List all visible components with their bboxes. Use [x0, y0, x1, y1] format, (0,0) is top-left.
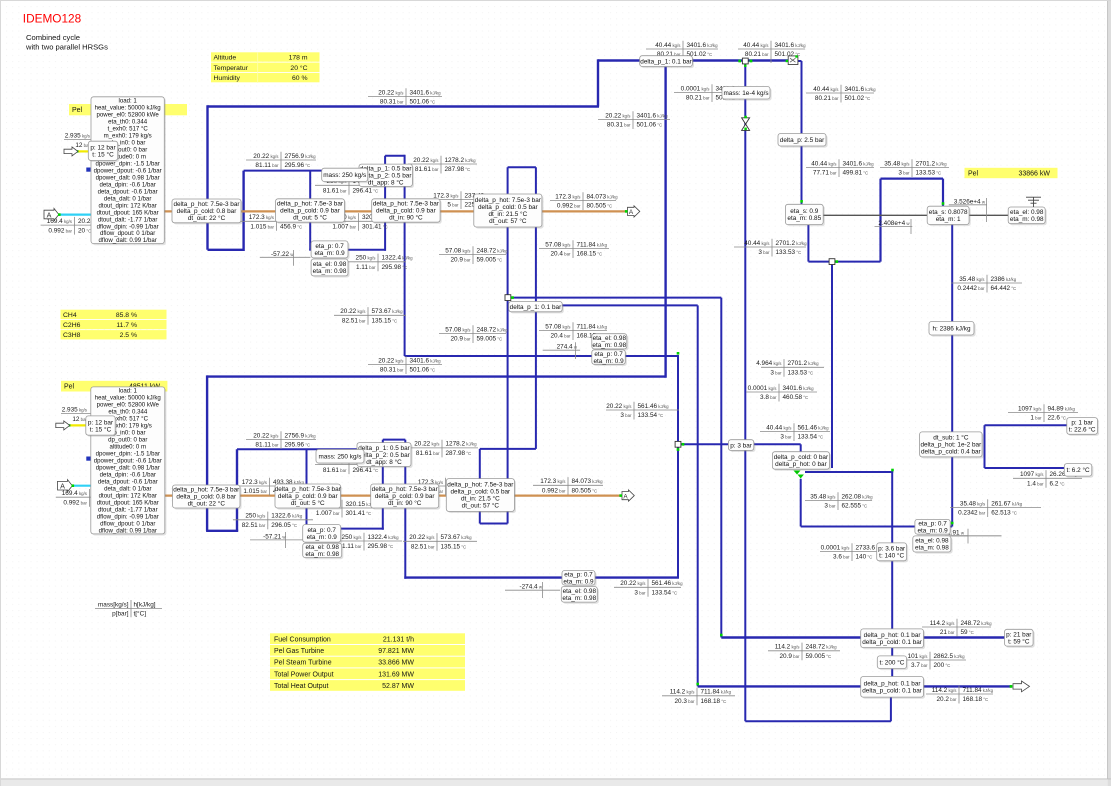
wire HX3 outlet y472: [805, 471, 893, 473]
misc green ticks: [800, 200, 803, 203]
fuel values GT1: [64, 133, 95, 149]
svg-text:eta_m: 0.9: eta_m: 0.9: [593, 358, 624, 365]
svg-text:dt_out: 57 °C: dt_out: 57 °C: [462, 502, 500, 510]
fuel arrow GT2: [56, 421, 70, 430]
svg-text:248.72 kJ/kg: 248.72 kJ/kg: [806, 644, 838, 651]
svg-text:2756.9 kJ/kg: 2756.9 kJ/kg: [285, 432, 317, 439]
svg-text:eta_m: 1: eta_m: 1: [936, 216, 961, 223]
svg-text:81.11 bar: 81.11 bar: [255, 162, 279, 169]
svg-text:2.408e+4 w: 2.408e+4 w: [878, 220, 910, 227]
svg-text:eta_m: 0.98: eta_m: 0.98: [915, 545, 949, 552]
svg-text:40.44 kg/s: 40.44 kg/s: [811, 160, 837, 167]
wire HP steam line HRSG2: [207, 375, 665, 377]
air inlet values GT1: [41, 217, 106, 235]
svg-text:261.67 kJ/kg: 261.67 kJ/kg: [991, 500, 1023, 507]
wire HRSG1 evaporator leg x310: [309, 171, 311, 250]
stream values condensate b: [614, 579, 683, 597]
svg-text:eta_p: 0.7: eta_p: 0.7: [918, 520, 947, 527]
stream values p3.6bar: [820, 543, 887, 561]
svg-text:59 °C: 59 °C: [961, 629, 974, 636]
wire LP leg x479: [479, 449, 481, 524]
air inlet line GT2 (cyan): [72, 485, 110, 487]
stream values HRSG1 circulation: [315, 177, 392, 195]
svg-text:20 °C: 20 °C: [78, 227, 91, 234]
flue gas duct GT2 (tan): [150, 495, 621, 497]
stream values condensate a: [606, 402, 679, 420]
svg-text:460.58 °C: 460.58 °C: [783, 394, 809, 401]
junction node p3bar: [675, 441, 681, 447]
svg-text:eta_el: 0.98: eta_el: 0.98: [313, 261, 347, 268]
wire HRSG2 riser x237: [236, 449, 238, 531]
svg-text:dp_out0: 0 bar: dp_out0: 0 bar: [108, 437, 147, 444]
svg-text:248.72 kJ/kg: 248.72 kJ/kg: [961, 620, 993, 627]
svg-text:delta_p: 2.5 bar: delta_p: 2.5 bar: [780, 137, 825, 144]
fuel arrow GT1: [64, 147, 78, 156]
cooling water outlet values: [1013, 470, 1082, 488]
svg-text:20.3 bar: 20.3 bar: [674, 698, 695, 705]
evaporator HX box HRSG2 dt5: [275, 484, 342, 510]
svg-text:3 bar: 3 bar: [634, 590, 646, 597]
svg-text:40.44 kg/s: 40.44 kg/s: [743, 42, 769, 49]
stream values header left: [646, 41, 718, 63]
svg-text:deta_dpin: -0.6 1/bar: deta_dpin: -0.6 1/bar: [100, 181, 156, 188]
gas turbine GT2 parameter box: [91, 387, 167, 536]
stream values LP drum 1: [539, 240, 609, 258]
svg-text:82.51 bar: 82.51 bar: [242, 522, 266, 529]
svg-text:dt_out: 22 °C: dt_out: 22 °C: [188, 214, 226, 222]
wire HRSG1 bottom U1: [208, 249, 244, 251]
svg-text:84.073 kJ/kg: 84.073 kJ/kg: [587, 193, 619, 200]
stream values HRSG2 steam: [368, 356, 442, 374]
control valve: [742, 118, 750, 131]
svg-text:77.71 bar: 77.71 bar: [813, 170, 837, 177]
ambient conditions table: [211, 52, 320, 61]
stream values LP feed 1: [439, 246, 508, 264]
svg-text:delta_p_hot: 0.1 bar: delta_p_hot: 0.1 bar: [864, 632, 922, 639]
svg-text:64.442 °C: 64.442 °C: [991, 285, 1017, 292]
svg-text:altitude0: 0 m: altitude0: 0 m: [110, 444, 147, 451]
svg-text:80.21 bar: 80.21 bar: [686, 95, 710, 102]
svg-text:133.54 °C: 133.54 °C: [798, 434, 824, 441]
svg-text:5 bar: 5 bar: [447, 202, 459, 209]
svg-text:97.821 MW: 97.821 MW: [378, 648, 414, 655]
DH supply values right: [926, 686, 994, 704]
svg-text:1278.2 kJ/kg: 1278.2 kJ/kg: [445, 157, 477, 164]
svg-text:delta_p_hot: 1e-2 bar: delta_p_hot: 1e-2 bar: [920, 442, 982, 449]
circulation pump HRSG2: [303, 525, 343, 544]
svg-text:1.007 bar: 1.007 bar: [316, 510, 340, 517]
svg-text:eta_s: 0.9: eta_s: 0.9: [790, 208, 819, 215]
svg-text:eta_th0: 0.344: eta_th0: 0.344: [108, 409, 148, 416]
wire HRSG2 top U2: [383, 439, 406, 441]
svg-text:deta_dalt: 0 1/bar: deta_dalt: 0 1/bar: [104, 485, 151, 492]
stream values HRSG2 circulation: [315, 456, 392, 474]
svg-text:delta_p_hot: 7.5e-3 bar: delta_p_hot: 7.5e-3 bar: [447, 482, 514, 489]
svg-text:3 bar: 3 bar: [898, 170, 910, 177]
svg-text:t: 200 °C: t: 200 °C: [879, 658, 904, 666]
svg-text:0.992 bar: 0.992 bar: [542, 488, 566, 495]
svg-text:35.48 kg/s: 35.48 kg/s: [810, 493, 836, 500]
svg-text:dtout_dpin: 172 K/bar: dtout_dpin: 172 K/bar: [99, 492, 157, 499]
shaft LP turbine-generator: [969, 214, 1008, 216]
svg-text:33.866 MW: 33.866 MW: [378, 660, 414, 667]
svg-text:Total Power Output: Total Power Output: [274, 671, 334, 678]
svg-text:200 °C: 200 °C: [934, 662, 951, 669]
circulation pump motor HRSG1: [311, 259, 350, 278]
svg-text:169.4 kg/s: 169.4 kg/s: [62, 490, 88, 497]
fuel condition box GT1: [88, 141, 119, 162]
svg-text:eta_p: 0.7: eta_p: 0.7: [594, 351, 623, 358]
stream values circulation pump in 2: [233, 512, 313, 530]
exhaust enthalpy box: [929, 322, 976, 337]
svg-text:250 kg/s: 250 kg/s: [342, 534, 363, 541]
cooling water inlet values: [1008, 404, 1078, 422]
wire HRSG2 economizer leg x382: [382, 440, 384, 530]
svg-text:C3H8: C3H8: [63, 332, 81, 339]
stream values HRSG2 drum steam: [246, 431, 316, 449]
svg-text:2701.2 kJ/kg: 2701.2 kJ/kg: [788, 360, 820, 367]
svg-text:11.7 %: 11.7 %: [116, 322, 137, 329]
svg-text:1.4 bar: 1.4 bar: [1027, 481, 1044, 488]
svg-text:295.98 °C: 295.98 °C: [382, 264, 408, 271]
svg-text:eta_p: 0.7: eta_p: 0.7: [564, 571, 593, 578]
LP HX box HRSG2: [446, 479, 516, 513]
svg-text:295.96 °C: 295.96 °C: [285, 162, 311, 169]
svg-text:0.992 bar: 0.992 bar: [63, 499, 87, 506]
stream values bypass down: [746, 384, 817, 402]
steam values t200: [897, 652, 966, 670]
svg-text:40.44 kg/s: 40.44 kg/s: [813, 86, 839, 93]
svg-text:delta_p_hot: 0.1 bar: delta_p_hot: 0.1 bar: [864, 681, 922, 688]
svg-text:dflow_dpin: -0.99 1/bar: dflow_dpin: -0.99 1/bar: [97, 513, 159, 520]
svg-text:dt_in: 21.5 °C: dt_in: 21.5 °C: [461, 495, 500, 503]
svg-text:heat_value: 50000 kJ/kg: heat_value: 50000 kJ/kg: [95, 395, 161, 402]
svg-text:85.8 %: 85.8 %: [116, 312, 137, 319]
wire HRSG2 evaporator leg x306: [306, 449, 308, 530]
svg-text:eta_m: 0.98: eta_m: 0.98: [305, 551, 339, 558]
svg-text:12 bar: 12 bar: [72, 416, 87, 423]
svg-text:dt_out: 5 °C: dt_out: 5 °C: [293, 214, 327, 222]
wire crossover riser x880: [879, 179, 881, 262]
svg-text:eta_m: 0.98: eta_m: 0.98: [313, 268, 347, 275]
wire HP steam line HRSG1: [208, 105, 600, 107]
svg-text:172.3 kg/s: 172.3 kg/s: [249, 214, 275, 221]
svg-text:81.61 bar: 81.61 bar: [323, 467, 347, 474]
svg-text:3 bar: 3 bar: [780, 434, 792, 441]
svg-text:Pel Steam Turbine: Pel Steam Turbine: [274, 660, 332, 667]
LP pump 1: [592, 350, 627, 366]
flue gas values HRSG1 out: [550, 192, 618, 210]
svg-text:A: A: [629, 209, 634, 216]
svg-text:20.22 kg/s: 20.22 kg/s: [620, 580, 646, 587]
junction node top: [742, 58, 748, 64]
flue gas duct GT1 (tan): [155, 210, 627, 212]
svg-text:dpower_dalt: 0.98 1/bar: dpower_dalt: 0.98 1/bar: [96, 174, 160, 181]
svg-text:114.2 kg/s: 114.2 kg/s: [670, 689, 696, 696]
svg-text:295.96 °C: 295.96 °C: [285, 442, 311, 449]
svg-text:delta_p_hot: 7.5e-3 bar: delta_p_hot: 7.5e-3 bar: [275, 486, 342, 493]
svg-text:561.46 kJ/kg: 561.46 kJ/kg: [652, 580, 684, 587]
DH water values HX1 in: [768, 643, 840, 661]
svg-text:eta_s: 0.8078: eta_s: 0.8078: [929, 209, 968, 216]
flue gas values HRSG2 a: [234, 478, 305, 496]
svg-text:3401.6 kJ/kg: 3401.6 kJ/kg: [637, 112, 669, 119]
cooling water source box: [1067, 418, 1099, 436]
svg-text:287.98 °C: 287.98 °C: [445, 166, 471, 173]
svg-text:296.41 °C: 296.41 °C: [353, 188, 379, 195]
turbine valve box: [778, 134, 828, 148]
wire LP U bottom: [480, 523, 508, 525]
stream values LP drum 2: [539, 322, 608, 340]
svg-text:20.22 kg/s: 20.22 kg/s: [378, 357, 404, 364]
svg-text:21.131 t/h: 21.131 t/h: [383, 636, 414, 643]
svg-text:172.3 kg/s: 172.3 kg/s: [540, 478, 566, 485]
svg-text:dpower_dpout: -0.6 1/bar: dpower_dpout: -0.6 1/bar: [94, 167, 162, 174]
svg-text:delta_p_hot: 7.5e-3 bar: delta_p_hot: 7.5e-3 bar: [373, 201, 440, 208]
svg-text:20.9 bar: 20.9 bar: [450, 257, 471, 264]
svg-text:eta_m: 0.98: eta_m: 0.98: [592, 342, 626, 349]
svg-text:dtout_dpout: 165 K/bar: dtout_dpout: 165 K/bar: [97, 209, 159, 216]
svg-text:135.15 °C: 135.15 °C: [441, 544, 467, 551]
svg-text:delta_p_2: 0.5 bar: delta_p_2: 0.5 bar: [358, 452, 410, 459]
svg-text:t[°C]: t[°C]: [134, 610, 147, 618]
svg-text:21 bar: 21 bar: [940, 629, 955, 636]
stream values HRSG1 drum water: [408, 156, 477, 174]
svg-text:A: A: [60, 482, 65, 491]
svg-text:1.11 bar: 1.11 bar: [342, 543, 362, 550]
wire HRSG1 drum level line: [244, 170, 385, 172]
svg-text:20.22 kg/s: 20.22 kg/s: [605, 112, 631, 119]
svg-text:with two parallel HRSGs: with two parallel HRSGs: [25, 42, 108, 51]
stream values HRSG1 steam: [368, 88, 442, 106]
svg-text:t_exh0: 517 °C: t_exh0: 517 °C: [107, 125, 148, 132]
fuel line green tips: [76, 150, 78, 152]
svg-text:eta_el: 0.98: eta_el: 0.98: [305, 544, 339, 551]
fuel line GT1 (yellow): [78, 150, 93, 152]
svg-text:Pel Gas Turbine: Pel Gas Turbine: [274, 648, 324, 655]
svg-text:A: A: [623, 493, 628, 500]
svg-text:135.15 °C: 135.15 °C: [372, 318, 398, 325]
svg-text:dt_out: 22 °C: dt_out: 22 °C: [188, 500, 226, 508]
svg-text:dpower_dpout: -0.6 1/bar: dpower_dpout: -0.6 1/bar: [94, 458, 162, 465]
LP pump motor 2: [561, 587, 599, 604]
svg-text:Temperatur: Temperatur: [214, 65, 249, 72]
svg-text:dt_sub: 1 °C: dt_sub: 1 °C: [933, 434, 969, 442]
stream values bypass: [674, 84, 747, 102]
svg-text:3.6 bar: 3.6 bar: [833, 554, 850, 561]
svg-text:t: 140 °C: t: 140 °C: [879, 552, 904, 560]
svg-text:t: 15 °C: t: 15 °C: [92, 151, 114, 159]
svg-text:eta_m: 0.85: eta_m: 0.85: [787, 215, 821, 222]
LP pump 2: [562, 571, 597, 587]
svg-text:dtout_dalt: -1.77 1/bar: dtout_dalt: -1.77 1/bar: [98, 506, 158, 513]
circulation mass box HRSG1: [322, 168, 370, 183]
svg-text:172.3 kg/s: 172.3 kg/s: [242, 479, 268, 486]
svg-text:p: 3.6 bar: p: 3.6 bar: [878, 546, 906, 553]
svg-text:p: 12 bar: p: 12 bar: [90, 145, 116, 152]
fuel composition table: [61, 310, 167, 319]
svg-text:561.46 kJ/kg: 561.46 kJ/kg: [638, 403, 670, 410]
wire HRSG2 drum level line: [237, 448, 383, 450]
svg-text:501.06 °C: 501.06 °C: [637, 122, 663, 129]
wire LP admission y178: [881, 178, 944, 180]
svg-text:20.22 kg/s: 20.22 kg/s: [409, 534, 435, 541]
svg-text:3401.6 kJ/kg: 3401.6 kJ/kg: [845, 86, 877, 93]
svg-text:dt_in: 90 °C: dt_in: 90 °C: [389, 214, 423, 222]
wire DH return y721: [745, 720, 891, 722]
condenser box: [920, 432, 984, 459]
svg-text:eta_m: 0.9: eta_m: 0.9: [307, 534, 338, 541]
svg-text:Altitude: Altitude: [214, 55, 237, 62]
wire HRSG2 feedwater line: [306, 528, 384, 530]
svg-text:501.02 °C: 501.02 °C: [845, 95, 871, 102]
svg-text:1322.4 kJ/kg: 1322.4 kJ/kg: [368, 534, 400, 541]
svg-text:287.98 °C: 287.98 °C: [446, 450, 472, 457]
svg-text:33866 kW: 33866 kW: [1018, 171, 1050, 178]
svg-text:-274.4 w: -274.4 w: [519, 584, 542, 591]
wire LP steam supply y305: [540, 304, 698, 306]
svg-text:h[kJ/kg]: h[kJ/kg]: [134, 601, 156, 608]
wire drop to DH HX2 x697: [697, 305, 699, 686]
svg-text:94.89 kJ/kg: 94.89 kJ/kg: [1048, 405, 1076, 412]
svg-text:2701.2 kJ/kg: 2701.2 kJ/kg: [916, 160, 948, 167]
wire heater string x892: [891, 471, 893, 688]
svg-text:133.54 °C: 133.54 °C: [638, 412, 664, 419]
air inlet arrow GT1: [44, 208, 59, 220]
exhaust arrow HRSG2: [622, 490, 634, 501]
shaft power HP-LP: [875, 219, 913, 234]
svg-text:295.98 °C: 295.98 °C: [368, 543, 394, 550]
p3.6bar box: [877, 543, 909, 563]
svg-text:20.22 kg/s: 20.22 kg/s: [253, 432, 279, 439]
svg-text:133.53 °C: 133.53 °C: [776, 249, 802, 256]
svg-text:1278.2 kJ/kg: 1278.2 kJ/kg: [446, 441, 478, 448]
grid symbol: [1026, 197, 1041, 207]
svg-text:57.08 kg/s: 57.08 kg/s: [545, 241, 571, 248]
stream values HRSG1 drum steam: [246, 152, 316, 170]
svg-text:delta_p_cold: 0.5 bar: delta_p_cold: 0.5 bar: [478, 204, 539, 211]
svg-text:dflow_dalt: 0.99 1/bar: dflow_dalt: 0.99 1/bar: [99, 237, 157, 244]
svg-text:3401.6 kJ/kg: 3401.6 kJ/kg: [783, 385, 815, 392]
svg-text:81.61 bar: 81.61 bar: [416, 450, 440, 457]
svg-text:dpower_dpin: -1.5 1/bar: dpower_dpin: -1.5 1/bar: [96, 451, 160, 458]
pump power HRSG1: [260, 250, 311, 266]
svg-text:delta_p_1: 0.1 bar: delta_p_1: 0.1 bar: [640, 58, 692, 65]
svg-text:40.44 kg/s: 40.44 kg/s: [655, 42, 681, 49]
svg-text:711.84 kJ/kg: 711.84 kJ/kg: [577, 241, 608, 248]
svg-text:3 bar: 3 bar: [758, 249, 770, 256]
svg-text:delta_p_cold: 0.9 bar: delta_p_cold: 0.9 bar: [376, 208, 437, 215]
wire HP turbine exhaust x808: [807, 225, 809, 262]
svg-text:168.18 °C: 168.18 °C: [963, 696, 989, 703]
fuel line GT2 (yellow): [70, 424, 87, 426]
svg-text:heat_value: 50000 kJ/kg: heat_value: 50000 kJ/kg: [95, 104, 161, 111]
wire drop to DH HX1 x721: [720, 298, 722, 638]
stream values LP mix: [756, 359, 824, 377]
svg-text:delta_p_hot: 7.5e-3 bar: delta_p_hot: 7.5e-3 bar: [277, 201, 344, 208]
svg-text:172.3 kg/s: 172.3 kg/s: [555, 193, 581, 200]
wire HP turbine inlet x801: [801, 61, 803, 205]
svg-text:deta_dpout: -0.6 1/bar: deta_dpout: -0.6 1/bar: [98, 188, 158, 195]
svg-text:2701.2 kJ/kg: 2701.2 kJ/kg: [776, 240, 808, 247]
units legend: [95, 600, 162, 618]
air inlet values GT2: [56, 489, 121, 507]
svg-text:Humidity: Humidity: [214, 75, 241, 82]
svg-text:2756.9 kJ/kg: 2756.9 kJ/kg: [285, 153, 317, 160]
svg-text:eta_p: 0.7: eta_p: 0.7: [307, 527, 336, 534]
svg-text:eta_el: 0.98: eta_el: 0.98: [563, 588, 597, 595]
generator: [1008, 207, 1047, 225]
svg-text:dt_in: 21.5 °C: dt_in: 21.5 °C: [488, 210, 527, 218]
svg-text:delta_p_cold: 0.9 bar: delta_p_cold: 0.9 bar: [375, 493, 436, 500]
svg-text:delta_p_cold: 0.8 bar: delta_p_cold: 0.8 bar: [176, 494, 237, 501]
svg-text:p: 12 bar: p: 12 bar: [88, 419, 114, 426]
svg-text:20.9 bar: 20.9 bar: [779, 653, 800, 660]
svg-text:301.41 °C: 301.41 °C: [346, 510, 372, 517]
LP preheater HX3 box: [772, 452, 831, 471]
svg-text:20.4 bar: 20.4 bar: [550, 333, 571, 340]
svg-text:22.6 °C: 22.6 °C: [1048, 415, 1067, 422]
svg-text:62.555 °C: 62.555 °C: [842, 503, 868, 510]
svg-text:59.005 °C: 59.005 °C: [477, 336, 503, 343]
Pel label steam turbine: [965, 168, 1058, 178]
wire LP leg x535: [535, 167, 537, 449]
flue gas values HRSG2 out: [533, 477, 603, 495]
svg-text:C2H6: C2H6: [63, 322, 81, 329]
svg-text:eta_m: 0.9: eta_m: 0.9: [917, 527, 948, 534]
LP HX box HRSG1: [474, 194, 544, 229]
flue gas values HRSG1 b: [325, 213, 394, 231]
svg-text:dpower_dalt: 0.98 1/bar: dpower_dalt: 0.98 1/bar: [96, 465, 160, 472]
svg-text:0.992 bar: 0.992 bar: [48, 227, 72, 234]
svg-text:20.22 kg/s: 20.22 kg/s: [253, 153, 279, 160]
svg-text:81.11 bar: 81.11 bar: [255, 442, 279, 449]
svg-text:delta_p_cold: 0.9 bar: delta_p_cold: 0.9 bar: [278, 493, 339, 500]
stream values HRSG2 steam riser: [598, 111, 670, 129]
svg-text:248.72 kJ/kg: 248.72 kJ/kg: [477, 247, 509, 254]
svg-text:1097 kg/s: 1097 kg/s: [1020, 471, 1044, 478]
svg-text:1.015 bar: 1.015 bar: [250, 224, 274, 231]
stream values LP feed 2: [439, 325, 508, 343]
svg-text:Combined cycle: Combined cycle: [26, 33, 80, 42]
svg-text:0.2442 bar: 0.2442 bar: [957, 285, 985, 292]
superheater HX box HRSG1 dt90: [372, 199, 442, 224]
svg-text:80.31 bar: 80.31 bar: [607, 122, 631, 129]
bypass mass box: [722, 87, 772, 101]
svg-text:2862.5 kJ/kg: 2862.5 kJ/kg: [934, 653, 966, 660]
svg-text:CH4: CH4: [63, 312, 77, 319]
circulation mass box HRSG2: [316, 450, 366, 465]
svg-text:eta_m: 0.98: eta_m: 0.98: [1010, 216, 1044, 223]
wire HRSG1 feedwater line: [309, 249, 386, 251]
svg-text:mass: 250 kg/s: mass: 250 kg/s: [319, 453, 362, 460]
wire LP turbine inlet x943: [942, 179, 944, 207]
wire p3bar line y444: [679, 443, 801, 445]
mixer icon: [788, 56, 798, 65]
svg-text:133.53 °C: 133.53 °C: [916, 170, 942, 177]
GT2 fuel port mark: [86, 457, 90, 461]
svg-text:561.46 kJ/kg: 561.46 kJ/kg: [798, 424, 830, 431]
wire HRSG2 downcomer x207: [206, 375, 208, 530]
wire HX3 bottom outlet x800: [800, 479, 802, 527]
svg-text:h: 2386 kJ/kg: h: 2386 kJ/kg: [932, 325, 970, 332]
svg-text:delta_p_hot: 7.5e-3 bar: delta_p_hot: 7.5e-3 bar: [475, 197, 542, 204]
svg-text:20.9 bar: 20.9 bar: [450, 336, 471, 343]
svg-text:p[bar]: p[bar]: [112, 611, 129, 618]
svg-text:84.073 kJ/kg: 84.073 kJ/kg: [572, 478, 604, 485]
svg-text:20.22 kg/s: 20.22 kg/s: [413, 157, 439, 164]
stream values LP exhaust: [951, 275, 1022, 293]
